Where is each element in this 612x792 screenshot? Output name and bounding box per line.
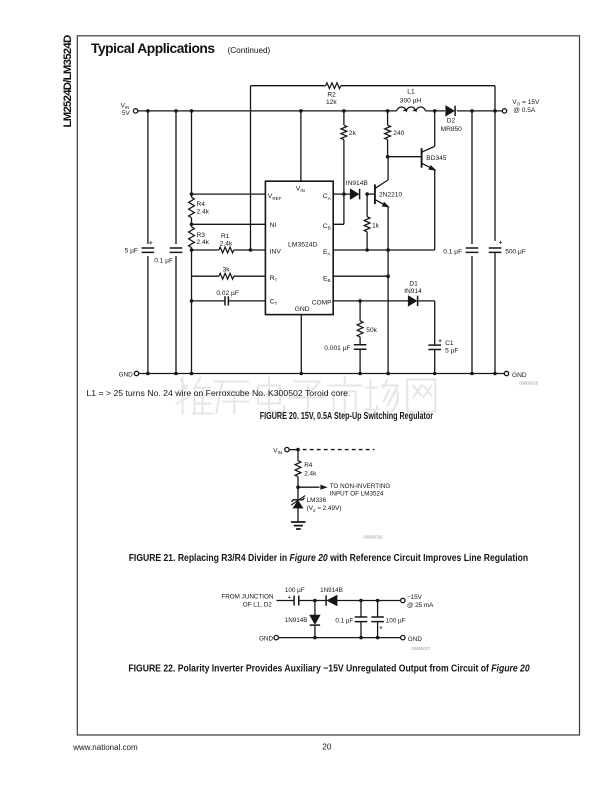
diode 1N914B shunt (down) [314,601,316,638]
diode 1N914B series (left) [325,595,327,605]
wire CB pin up to CA node [333,194,344,224]
wire rail L1 to D2 [425,110,445,112]
node dot D2 cathode / 0.1uF output [470,109,474,113]
terminal GND right Figure 22 [401,635,405,639]
resistor R2 12k [326,83,341,89]
node dot NI junction [190,223,194,227]
svg-text:L1 = > 25 turns No. 24 wire on: L1 = > 25 turns No. 24 wire on Ferroxcub… [86,389,350,397]
svg-text:3k: 3k [223,266,231,273]
svg-text:www.national.com: www.national.com [72,743,138,752]
svg-text:20: 20 [322,742,332,751]
node dot R3/R1 junction [190,248,194,252]
node dot VREF branch on VIN rail [190,109,194,113]
terminal GND left Figure 22 [274,635,278,639]
terminal -15V output [401,598,405,602]
wire 1k branch [366,194,368,250]
wire EA rail to BD345 emitter [333,249,435,251]
svg-text:0.1 µF: 0.1 µF [154,258,173,265]
terminal GND right [504,371,508,375]
svg-text:100 µF: 100 µF [285,587,305,594]
wire 100uF branch Figure 22 [377,601,379,638]
svg-text:R4: R4 [197,201,206,208]
node dot INV/feedback junction [249,248,253,252]
capacitor 100uF series [294,596,299,606]
node dot CT junction [190,299,194,303]
svg-text:C1: C1 [445,340,454,347]
svg-text:+: + [499,240,503,247]
svg-text:00865027: 00865027 [411,646,431,651]
node dot L1/D2/BD345 collector [433,109,437,113]
node dot VREF pin junction [190,192,194,196]
node dot EB junction [386,274,390,278]
wire GND rail Figure 20 [139,373,505,375]
svg-text:R1: R1 [221,233,230,240]
svg-text:COMP: COMP [312,299,332,306]
svg-text:LM3524D: LM3524D [288,242,318,249]
wire to 2N2210 base [367,193,375,195]
page border frame [77,36,579,735]
node dot 1k on EA rail [365,248,369,252]
wire COMP line with D1 to C1 [333,301,435,374]
wire divider vertical VREF/R4/R3 to GND [191,111,193,374]
diode D2 MR850 [446,106,455,116]
svg-text:IN914: IN914 [404,288,422,295]
wire CT line [192,300,266,302]
capacitor 500uF [488,241,502,253]
wire 2k branch [343,111,345,194]
capacitor 0.001uF [354,345,367,349]
zener diode LM336 [293,501,303,509]
svg-text:0.1 µF: 0.1 µF [443,248,462,255]
arrow wire to non-inverting input text [298,486,320,488]
node dot Figure 21 top [296,448,300,452]
svg-text:+: + [438,338,442,345]
svg-text:Typical Applications: Typical Applications [91,41,215,56]
wire BD345 emitter down to EA rail [434,170,436,250]
svg-text:300 µH: 300 µH [400,98,422,105]
transistor Q2 2N2210 [374,184,376,204]
svg-text:BD345: BD345 [426,155,446,162]
transistor Q1 BD345 [421,148,423,168]
svg-text:1N914B: 1N914B [285,617,308,624]
svg-text:5 µF: 5 µF [125,248,138,255]
capacitor 5uF input [142,248,155,252]
wire GND rail Figure 22 [278,637,400,639]
wire 50k branch [359,301,361,374]
node dot 2k on rail [342,109,346,113]
svg-text:MR850: MR850 [441,126,463,133]
resistor R4 2.4k Figure 21 [295,461,301,477]
svg-text:@ 25 mA: @ 25 mA [407,602,434,609]
svg-text:@ 0.5A: @ 0.5A [513,107,536,114]
resistor R1 2.4k [219,247,234,253]
wire 0.1uF input branch [175,111,177,374]
node dot 0.1uF on VIN rail [174,109,178,113]
svg-text:00865025: 00865025 [519,380,539,385]
svg-text:0.001 µF: 0.001 µF [324,345,350,352]
wire feedback top rail with R2 [251,86,496,110]
capacitor 0.1uF Figure 22 [355,617,368,622]
svg-text:NI: NI [270,222,277,229]
resistor 1k [364,217,370,232]
svg-text:240: 240 [393,130,404,137]
wire RT line with 3k [192,275,266,277]
node dot COMP/50k junction [358,299,362,303]
node dot IC VIN pin on rail [299,109,303,113]
resistor R4 2.4k [189,197,195,218]
svg-text:FIGURE 21. Replacing R3/R4 Div: FIGURE 21. Replacing R3/R4 Divider in Fi… [129,552,529,563]
svg-text:R3: R3 [197,232,206,239]
svg-text:LM2524D/LM3524D: LM2524D/LM3524D [62,35,74,127]
diode D1 IN914 [408,296,417,306]
wire EB pin to emitter line [333,275,388,277]
capacitor 0.1uF input [170,248,183,252]
svg-text:FIGURE 20. 15V, 0.5A Step-Up S: FIGURE 20. 15V, 0.5A Step-Up Switching R… [260,410,434,421]
svg-text:FIGURE 22. Polarity Inverter P: FIGURE 22. Polarity Inverter Provides Au… [128,663,530,674]
node dot 100uF Figure 22 [376,599,380,603]
node dot 240/L1 on rail [386,109,390,113]
svg-text:LM336: LM336 [307,497,327,504]
resistor 2k [341,125,347,139]
svg-text:12k: 12k [326,99,337,106]
wire 0.1uF branch Figure 22 [360,601,362,638]
wire 5uF branch [147,111,149,374]
svg-text:+: + [149,240,153,247]
svg-text:GND: GND [119,371,134,378]
svg-text:1k: 1k [372,223,380,230]
svg-text:R4: R4 [304,462,313,469]
wire 2N2210 emitter down to GND rail [387,207,389,374]
terminal VIN input [133,109,137,113]
capacitor 0.1uF output [465,244,479,256]
svg-text:5V: 5V [122,110,131,117]
node dot diode/1k/base junction [365,192,369,196]
wire R4 branch Figure 21 [297,450,299,488]
svg-text:GND: GND [259,636,273,643]
node dots GND rail Figure 22 [313,636,317,640]
wire CA pin to diode [333,193,350,195]
node dot base junction BD345 [386,155,390,159]
svg-text:2.4k: 2.4k [197,208,210,215]
resistor 50k [357,321,363,337]
wire INV line with R1 [192,249,266,251]
wire VIN to node [289,449,298,451]
node dot 0.1uF Figure 22 [359,599,363,603]
node dot output / 500uF / feedback [493,109,497,113]
wire diode to output [337,600,400,602]
svg-text:TO NON-INVERTING: TO NON-INVERTING [330,483,391,490]
wire VREF pin [192,193,266,195]
resistor 240 [385,125,391,139]
diode IN914B at CA [350,189,359,199]
wire IC GND pin to ground rail [300,315,302,374]
wire 240 branch [387,111,389,157]
svg-text:(V2 ≈ 2.49V): (V2 ≈ 2.49V) [307,505,342,513]
svg-text:0.02 µF: 0.02 µF [216,290,239,297]
wire IC VIN pin to rail [300,111,302,181]
watermark chinese text (decorative approximation) [177,378,213,414]
node dots on GND rail [146,372,150,376]
svg-text:100 µF: 100 µF [386,617,406,624]
resistor 3k [219,273,234,279]
node dot CA/2k/CB junction [342,192,346,196]
wire LM336 to ground [297,487,299,521]
svg-text:R2: R2 [327,91,336,98]
node dot 5uF on VIN rail [146,109,150,113]
wire 500uF branch [494,111,496,374]
svg-text:2.4k: 2.4k [304,470,317,477]
resistor R3 2.4k [189,227,195,248]
svg-text:GND: GND [408,636,422,643]
wire VIN input rail (Figure 20) [138,110,397,112]
capacitor 100uF output Figure 22 [371,617,384,622]
svg-text:VIN: VIN [273,448,282,456]
wire input to cap Figure 22 [277,600,295,602]
svg-text:GND: GND [512,372,527,379]
capacitor C1 5uF [428,345,441,349]
wire 0.1uF output branch [471,111,473,374]
svg-text:VO = 15V: VO = 15V [512,99,540,107]
svg-text:2.4k: 2.4k [220,240,233,247]
svg-text:+: + [379,626,383,632]
terminal VO output [502,109,506,113]
svg-text:2.4k: 2.4k [197,239,210,246]
svg-text:2k: 2k [349,130,357,137]
inductor L1 300uH [397,107,426,111]
svg-text:5 µF: 5 µF [445,348,458,355]
wire cap to diode node [299,600,326,602]
svg-text:VIN: VIN [121,102,130,110]
wire BD345 base line [388,156,422,158]
svg-text:L1: L1 [407,88,415,95]
ground symbol Figure 21 [291,522,305,529]
svg-text:D1: D1 [409,280,418,287]
dashed wire to non-inverting input [303,449,375,451]
node dot R4/LM336 junction [296,485,300,489]
wire rail D2 to output terminal [457,110,502,112]
node dot vertical diode top [313,599,317,603]
op-amp IC U1 LM3524D box [265,181,333,314]
svg-text:500 µF: 500 µF [505,248,526,255]
svg-text:FROM JUNCTION: FROM JUNCTION [221,593,274,600]
wire 2N2210 collector up to base node [387,157,389,180]
svg-text:INPUT OF LM3524: INPUT OF LM3524 [330,490,384,497]
svg-text:0.1 µF: 0.1 µF [335,617,353,624]
wire feedback vertical to INV [250,86,252,250]
svg-text:(Continued): (Continued) [228,46,271,55]
wire BD345 collector up to rail [434,111,436,146]
node dot emitter line on EA rail [386,248,390,252]
svg-text:1N914B: 1N914B [320,587,343,594]
terminal GND left [134,371,138,375]
svg-text:−15V: −15V [407,594,423,601]
capacitor 0.02uF timing [225,296,228,305]
svg-text:2N2210: 2N2210 [379,192,402,199]
wire NI pin [192,223,266,225]
svg-text:D2: D2 [447,118,456,125]
svg-text:INV: INV [270,248,282,255]
svg-text:GND: GND [295,306,310,313]
svg-text:00865026: 00865026 [363,534,383,539]
svg-text:IN914B: IN914B [346,180,369,187]
svg-text:OF L1, D2: OF L1, D2 [243,601,273,608]
svg-text:50k: 50k [366,327,377,334]
